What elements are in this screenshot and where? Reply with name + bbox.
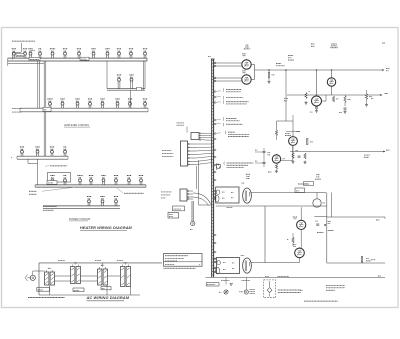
svg-text:AMPLIFIER CHASSIS: AMPLIFIER CHASSIS	[64, 124, 89, 127]
svg-text:HEATER WIRING DIAGRAM: HEATER WIRING DIAGRAM	[80, 226, 133, 230]
svg-text:POWER CHASSIS: POWER CHASSIS	[69, 218, 90, 221]
svg-text:AC WIRING DIAGRAM: AC WIRING DIAGRAM	[86, 295, 130, 300]
